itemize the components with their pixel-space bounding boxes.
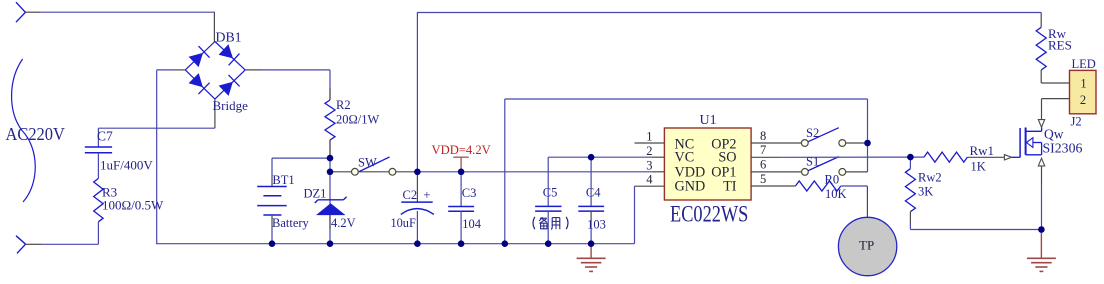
svg-text:3K: 3K bbox=[918, 185, 933, 199]
svg-text:1: 1 bbox=[1080, 77, 1086, 91]
svg-text:U1: U1 bbox=[700, 113, 717, 128]
svg-text:100Ω/0.5W: 100Ω/0.5W bbox=[102, 198, 164, 213]
svg-text:2: 2 bbox=[1080, 93, 1086, 107]
svg-text:C4: C4 bbox=[586, 186, 601, 200]
svg-text:TP: TP bbox=[859, 238, 874, 253]
svg-text:5: 5 bbox=[760, 172, 766, 186]
svg-text:SW: SW bbox=[358, 156, 377, 170]
svg-text:GND: GND bbox=[675, 179, 706, 195]
svg-text:1uF/400V: 1uF/400V bbox=[100, 158, 153, 173]
svg-text:4: 4 bbox=[646, 173, 653, 187]
svg-text:Rw2: Rw2 bbox=[918, 170, 942, 184]
svg-text:S1: S1 bbox=[806, 155, 819, 169]
svg-text:AC220V: AC220V bbox=[6, 125, 66, 145]
svg-text:C7: C7 bbox=[97, 129, 113, 144]
svg-text:R0: R0 bbox=[825, 173, 840, 187]
svg-text:Battery: Battery bbox=[272, 216, 310, 230]
svg-text:7: 7 bbox=[760, 143, 766, 157]
svg-text:S2: S2 bbox=[806, 126, 819, 140]
svg-text:1K: 1K bbox=[971, 160, 986, 174]
svg-text:1: 1 bbox=[646, 130, 652, 144]
svg-text:8: 8 bbox=[760, 129, 766, 143]
svg-text:EC022WS: EC022WS bbox=[670, 200, 748, 227]
svg-text:C3: C3 bbox=[462, 186, 477, 200]
svg-text:C2 +: C2 + bbox=[403, 188, 431, 202]
svg-text:6: 6 bbox=[760, 158, 766, 172]
svg-text:R2: R2 bbox=[336, 98, 351, 112]
svg-text:Rw1: Rw1 bbox=[970, 143, 995, 158]
svg-text:SO: SO bbox=[718, 150, 736, 166]
svg-text:20Ω/1W: 20Ω/1W bbox=[336, 113, 380, 127]
svg-text:SI2306: SI2306 bbox=[1043, 141, 1083, 156]
svg-text:103: 103 bbox=[587, 218, 606, 232]
svg-text:3: 3 bbox=[646, 158, 652, 172]
svg-text:LED: LED bbox=[1072, 57, 1096, 71]
svg-text:DZ1: DZ1 bbox=[304, 187, 327, 201]
svg-text:2: 2 bbox=[646, 144, 652, 158]
svg-text:10uF: 10uF bbox=[391, 216, 416, 230]
svg-text:C5: C5 bbox=[543, 186, 558, 200]
svg-text:4.2V: 4.2V bbox=[331, 216, 356, 230]
svg-text:Qw: Qw bbox=[1044, 127, 1064, 142]
svg-text:DB1: DB1 bbox=[216, 29, 242, 44]
svg-text:VC: VC bbox=[675, 150, 695, 166]
svg-text:BT1: BT1 bbox=[272, 173, 294, 187]
svg-text:TI: TI bbox=[723, 179, 737, 195]
svg-text:104: 104 bbox=[462, 217, 482, 231]
svg-text:10K: 10K bbox=[825, 187, 847, 201]
svg-text:VDD=4.2V: VDD=4.2V bbox=[432, 143, 491, 157]
svg-text:Bridge: Bridge bbox=[213, 98, 249, 113]
svg-text:J2: J2 bbox=[1071, 115, 1082, 129]
svg-text:RES: RES bbox=[1048, 38, 1072, 53]
